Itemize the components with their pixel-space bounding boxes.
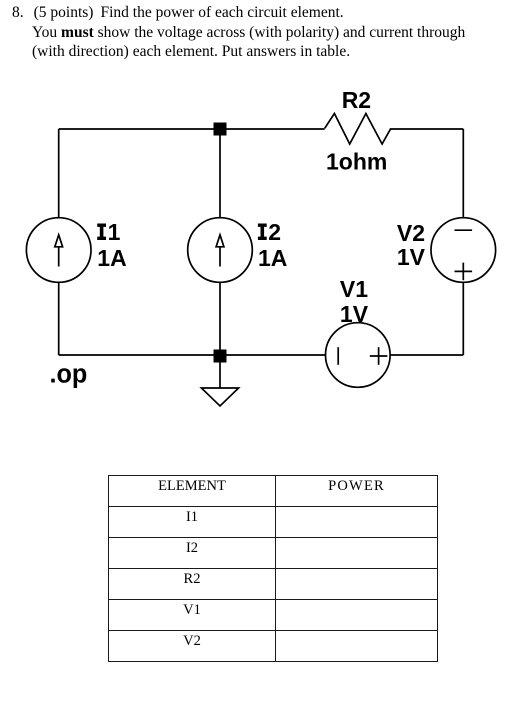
wire left rail lower [58, 283, 60, 356]
wire middle rail lower [219, 283, 221, 356]
answer table [108, 475, 438, 662]
ground [201, 388, 238, 406]
svg-text:1ohm: 1ohm [326, 149, 387, 175]
current source I2 [188, 218, 253, 283]
svg-text:1V: 1V [340, 301, 369, 327]
problem statement text [12, 3, 465, 61]
wire top-right horizontal [391, 128, 463, 130]
wire top-left horizontal [59, 128, 325, 130]
label I1 [97, 224, 106, 240]
wire bottom-left horizontal [59, 354, 326, 356]
current source I1 [26, 218, 91, 283]
node junction bottom [214, 350, 227, 363]
wire right rail lower [462, 283, 464, 356]
wire bottom-right horizontal [390, 354, 463, 356]
svg-text:1A: 1A [97, 245, 126, 271]
svg-text:1V: 1V [397, 244, 426, 270]
svg-text:R2: R2 [342, 87, 371, 113]
svg-text:V2: V2 [397, 220, 425, 246]
label I2 [258, 224, 267, 240]
wire middle rail upper [219, 129, 221, 218]
resistor R2 [325, 114, 391, 145]
svg-text:1: 1 [108, 219, 121, 245]
wire ground stub [219, 355, 221, 388]
svg-text:V1: V1 [340, 276, 368, 302]
node junction top [214, 123, 227, 136]
svg-text:.op: .op [50, 360, 88, 388]
wire right rail upper [462, 129, 464, 218]
circuit schematic [0, 0, 526, 470]
svg-text:2: 2 [268, 219, 281, 245]
voltage source V2 [431, 218, 496, 283]
voltage source V1 [326, 323, 391, 388]
svg-text:1A: 1A [258, 245, 287, 271]
wire left rail upper [58, 129, 60, 218]
